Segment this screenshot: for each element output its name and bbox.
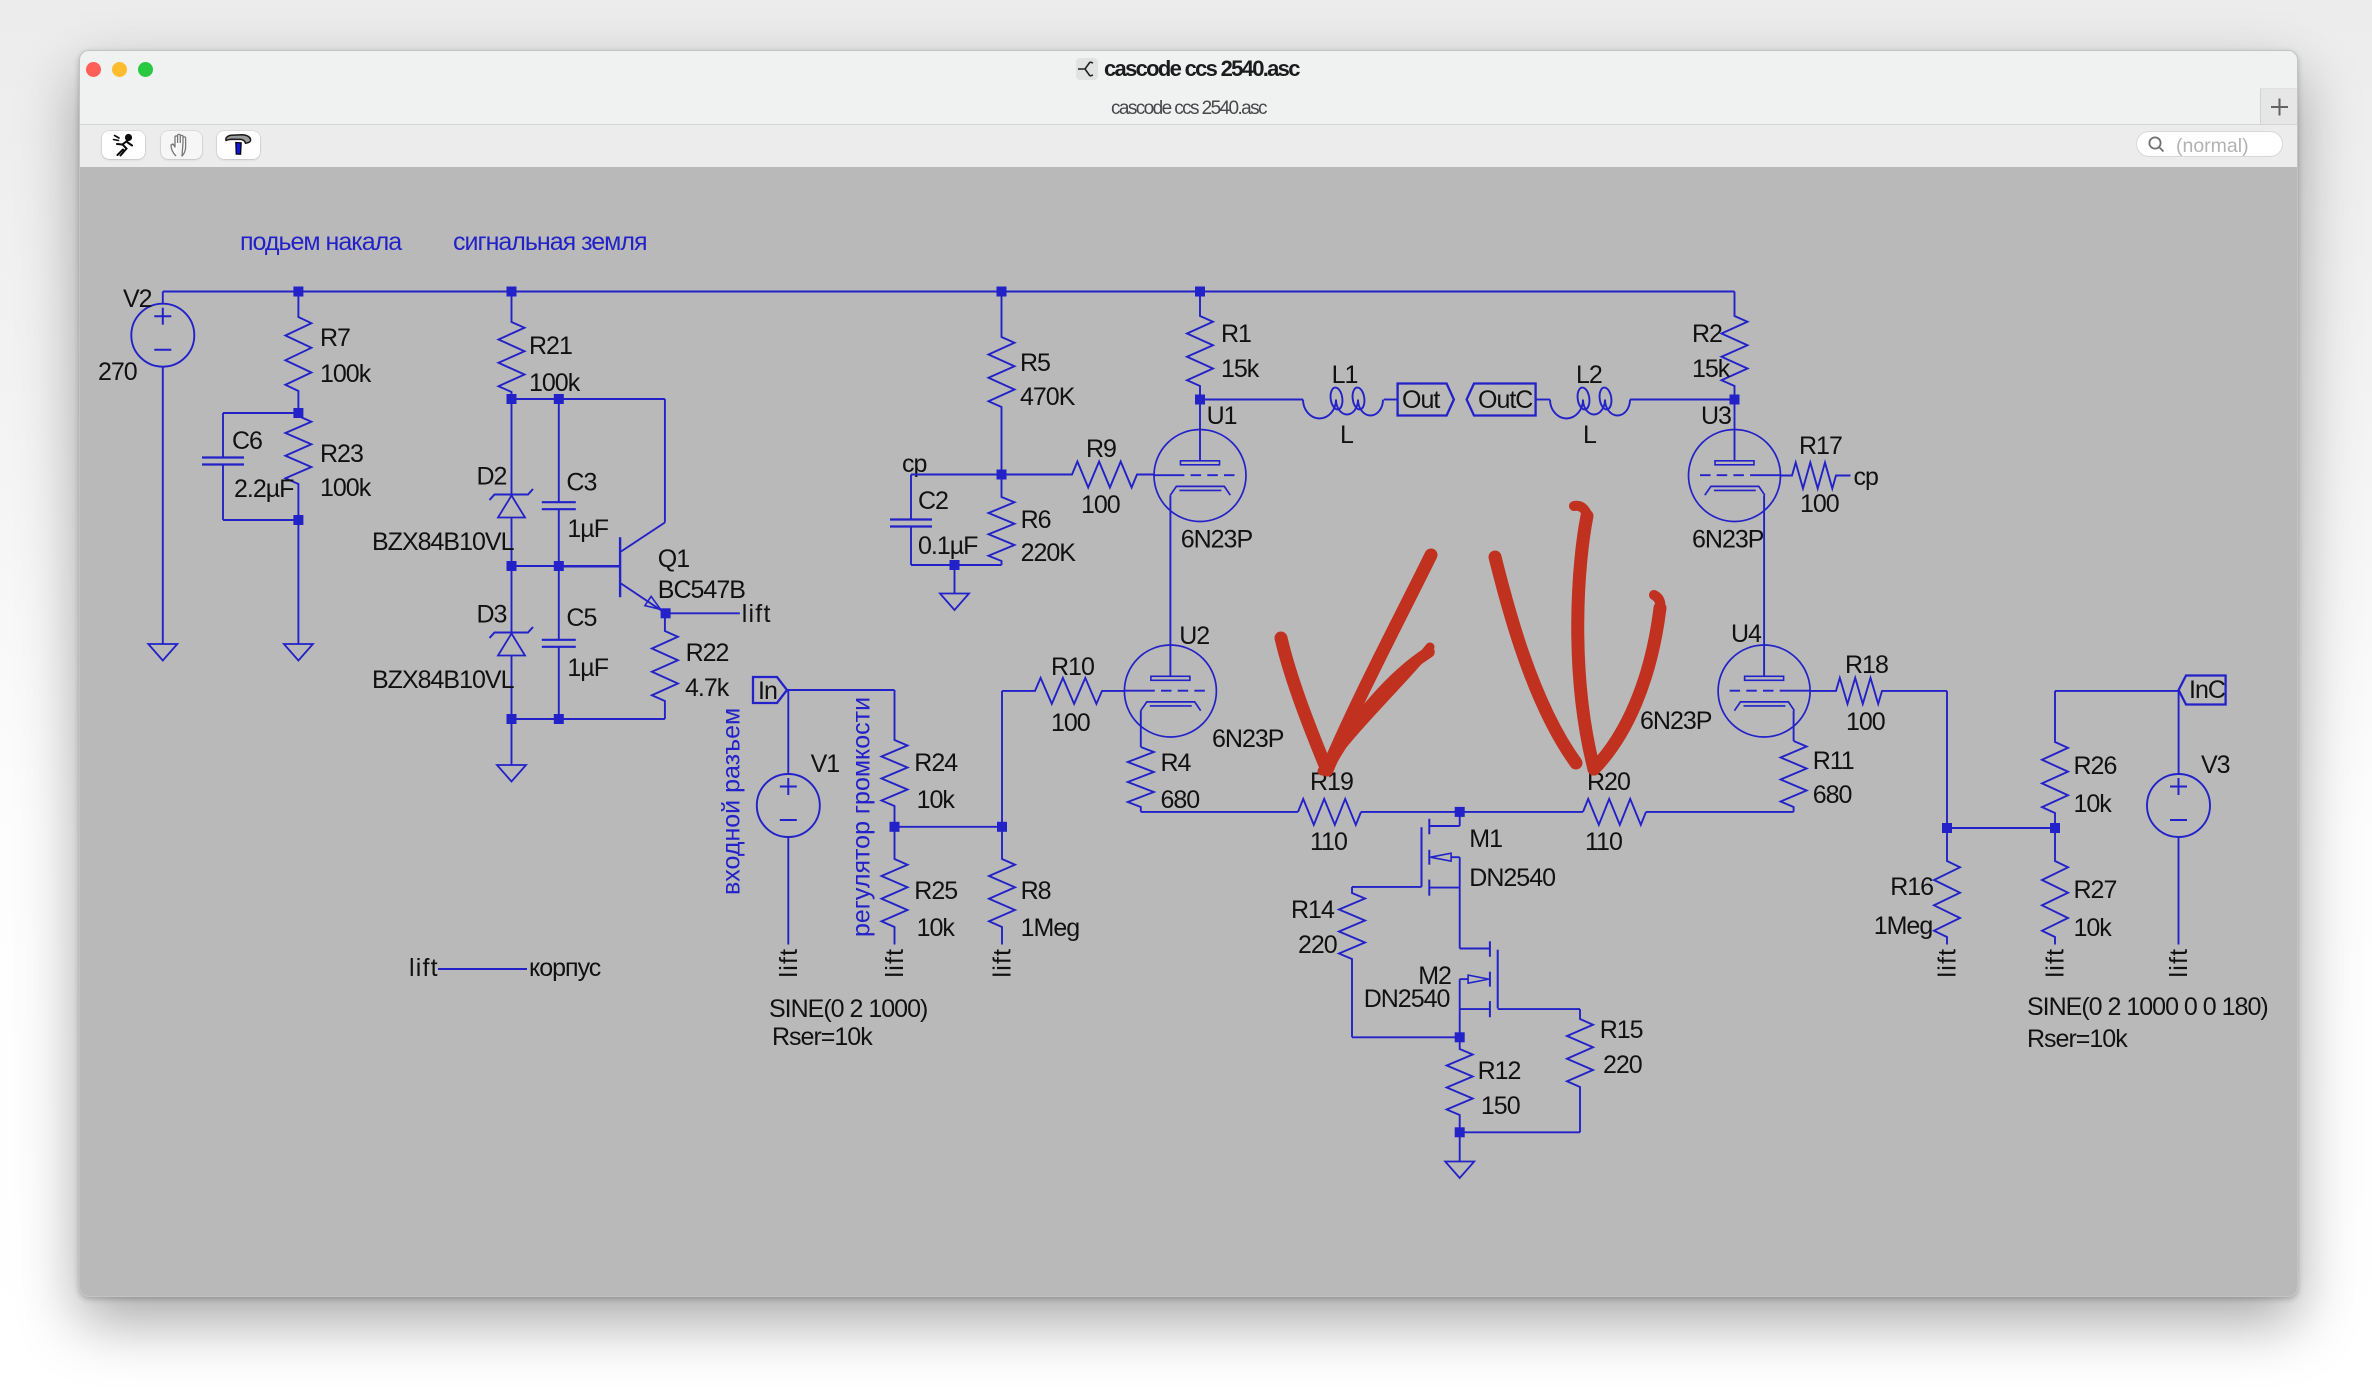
svg-text:InC: InC [2189, 676, 2226, 704]
value 4.7k [685, 674, 730, 702]
value 2.2uF [234, 475, 294, 503]
label Q1 [658, 545, 689, 573]
value 100k R23 [320, 474, 372, 502]
label U3 [1701, 402, 1731, 430]
node junction R16 top [1942, 823, 1952, 833]
label D2 [477, 463, 507, 491]
svg-text:R7: R7 [320, 324, 350, 352]
resistor R12 [1447, 1037, 1473, 1132]
value SINE V3 [2027, 993, 2268, 1021]
label R4 [1161, 749, 1192, 777]
run button [102, 131, 145, 159]
svg-text:V2: V2 [123, 285, 152, 313]
svg-text:lift: lift [409, 954, 439, 982]
svg-text:Rser=10k: Rser=10k [772, 1023, 873, 1051]
wire R1 to L1 [1200, 399, 1303, 401]
svg-text:BZX84B10VL: BZX84B10VL [372, 528, 515, 556]
value 220K [1021, 539, 1077, 567]
label R2 [1692, 320, 1722, 348]
schematic canvas [80, 167, 2299, 1298]
tab row [80, 88, 2297, 125]
value BZX84B10VL D3 [372, 666, 515, 694]
label R20 [1587, 768, 1630, 796]
svg-text:SINE(0 2 1000): SINE(0 2 1000) [769, 995, 927, 1023]
wire U3 cathode to U4 plate [1763, 495, 1765, 676]
label R14 [1291, 896, 1335, 924]
svg-text:R11: R11 [1813, 747, 1854, 775]
value BC547B [658, 576, 745, 604]
label V2 [123, 285, 152, 313]
node junction rail-M1 [1455, 807, 1465, 817]
label R8 [1021, 877, 1051, 905]
value 15k R2 [1692, 355, 1731, 383]
wire rail mid [1361, 811, 1583, 813]
tab label [1111, 98, 1266, 120]
svg-text:6N23P: 6N23P [1212, 725, 1284, 753]
resistor R16 [1934, 828, 1960, 945]
svg-text:R25: R25 [914, 877, 957, 905]
node junction R8 top [997, 822, 1007, 832]
zener diode D3 [490, 566, 534, 719]
svg-text:lift: lift [989, 948, 1017, 978]
svg-text:R9: R9 [1086, 435, 1116, 463]
value 6N23P U2 [1212, 725, 1284, 753]
svg-text:R4: R4 [1161, 749, 1192, 777]
svg-text:C2: C2 [918, 487, 948, 515]
resistor R17 [1781, 463, 1851, 489]
value 10k R25 [917, 914, 956, 942]
svg-text:сигнальная земля: сигнальная земля [453, 228, 647, 256]
node junction R21-D2 [507, 394, 517, 404]
svg-text:R5: R5 [1020, 349, 1050, 377]
label R26 [2074, 752, 2117, 780]
value Rser V3 [2027, 1025, 2128, 1053]
net label корпус [529, 954, 601, 982]
value 270 [98, 358, 137, 386]
label C5 [566, 604, 596, 632]
svg-text:D2: D2 [477, 463, 507, 491]
value 100 R9 [1081, 491, 1120, 519]
label R23 [320, 440, 363, 468]
node junction gnd C2R6 [950, 560, 960, 570]
svg-text:15k: 15k [1221, 355, 1260, 383]
mosfet M2 [1460, 941, 1498, 1017]
resistor R1 [1187, 292, 1213, 400]
net label lift R25 [881, 948, 909, 978]
value Rser V1 [772, 1023, 873, 1051]
zener diode D2 [490, 399, 534, 566]
value 100 R17 [1800, 490, 1839, 518]
ground under R23 [284, 520, 313, 661]
value 100k R21 [529, 369, 581, 397]
svg-text:lift: lift [881, 948, 909, 978]
label R10 [1051, 653, 1094, 681]
svg-text:U2: U2 [1179, 622, 1209, 650]
svg-text:270: 270 [98, 358, 137, 386]
wire R14 bottom row [1352, 1036, 1460, 1038]
resistor R19 [1298, 799, 1361, 825]
window title [1104, 56, 1299, 82]
value SINE V1 [769, 995, 927, 1023]
value DN2540 M2 [1364, 985, 1450, 1013]
node junction R27 top [2050, 823, 2060, 833]
svg-text:110: 110 [1585, 828, 1622, 856]
net label lift R16 [1934, 948, 1962, 978]
label R7 [320, 324, 350, 352]
triode U2 [1124, 645, 1216, 737]
svg-text:1µF: 1µF [567, 654, 608, 682]
svg-text:DN2540: DN2540 [1469, 864, 1555, 892]
capacitor C3 [542, 399, 576, 566]
resistor R18 [1810, 678, 1947, 704]
wire V3 bottom [2178, 837, 2180, 945]
value 100 R18 [1846, 708, 1885, 736]
svg-text:R6: R6 [1021, 506, 1051, 534]
node junction bus-R21 [507, 287, 517, 297]
resistor R8 [989, 827, 1015, 945]
net label cp left [902, 450, 927, 478]
wire U2 cathode to R4 [1140, 711, 1142, 747]
comment text регулятор громкости [848, 697, 876, 937]
value BZX84B10VL D2 [372, 528, 515, 556]
wire top supply bus [163, 291, 1735, 293]
svg-text:подьем накала: подьем накала [240, 228, 402, 256]
svg-text:In: In [758, 677, 777, 705]
svg-text:100k: 100k [320, 474, 372, 502]
svg-text:R8: R8 [1021, 877, 1051, 905]
svg-text:U3: U3 [1701, 402, 1731, 430]
svg-text:R10: R10 [1051, 653, 1094, 681]
document icon [1076, 58, 1098, 80]
voltage source V3 [2147, 774, 2210, 837]
value 6N23P U4 [1640, 707, 1712, 735]
svg-text:100: 100 [1800, 490, 1839, 518]
label R16 [1890, 873, 1933, 901]
value 1Meg R16 [1874, 912, 1933, 940]
svg-text:R12: R12 [1478, 1057, 1521, 1085]
svg-text:L1: L1 [1332, 361, 1358, 389]
wire R18 corner down [1946, 691, 1948, 828]
resistor R9 [1002, 462, 1155, 488]
wire InC down to V3 [2178, 691, 2180, 774]
resistor R23 [285, 413, 311, 520]
label V1 [811, 750, 840, 778]
value 10k R27 [2074, 914, 2113, 942]
wire L1 to Out [1384, 399, 1398, 401]
svg-text:Q1: Q1 [658, 545, 689, 573]
svg-text:корпус: корпус [529, 954, 601, 982]
search field [2136, 131, 2283, 157]
resistor R6 [989, 475, 1015, 566]
svg-text:входной разъем: входной разъем [718, 708, 746, 895]
svg-text:1Meg: 1Meg [1021, 914, 1080, 942]
label R27 [2074, 876, 2117, 904]
wire R24 node to R8 [895, 826, 1003, 828]
svg-text:V3: V3 [2201, 751, 2230, 779]
svg-text:lift: lift [742, 600, 772, 628]
net label cp right [1854, 463, 1879, 491]
capacitor C5 [542, 566, 576, 719]
svg-text:C6: C6 [232, 427, 262, 455]
svg-text:110: 110 [1310, 828, 1347, 856]
net label lift V3 [2165, 948, 2193, 978]
label R22 [686, 639, 729, 667]
net label lift V1 [775, 948, 803, 978]
capacitor C6 [202, 413, 244, 520]
node junction R24-R25 [890, 822, 900, 832]
label R19 [1310, 768, 1353, 796]
resistor R26 [2042, 691, 2068, 828]
wire row y398 [512, 398, 665, 400]
svg-text:1µF: 1µF [567, 515, 608, 543]
svg-text:SINE(0 2 1000 0 0 180): SINE(0 2 1000 0 0 180) [2027, 993, 2268, 1021]
value 100k R7 [320, 360, 372, 388]
svg-text:0.1µF: 0.1µF [918, 532, 978, 560]
net flag In [753, 677, 787, 705]
label M2 [1418, 962, 1451, 990]
value 150 R12 [1481, 1092, 1520, 1120]
svg-text:100: 100 [1081, 491, 1120, 519]
label R15 [1600, 1016, 1643, 1044]
voltage source V1 [757, 774, 820, 837]
resistor R7 [285, 292, 311, 414]
label R24 [914, 749, 958, 777]
wire V1 bottom [787, 837, 789, 945]
wire L2 to R2 [1630, 399, 1735, 401]
wire M1 gate to R14 [1352, 886, 1422, 888]
value 6N23P U3 [1692, 526, 1764, 554]
node junction R1-L1 [1195, 395, 1205, 405]
label R1 [1221, 320, 1251, 348]
resistor R22 [652, 613, 678, 719]
svg-text:C3: C3 [566, 469, 596, 497]
red arrow annotation at R20 [1495, 506, 1660, 769]
node junction R5-R6-R9 [997, 470, 1007, 480]
svg-text:470K: 470K [1020, 383, 1076, 411]
svg-text:680: 680 [1813, 781, 1852, 809]
svg-text:lift: lift [775, 948, 803, 978]
red arrow annotation at R19 [1281, 555, 1431, 771]
label L2 [1576, 361, 1602, 389]
svg-text:U1: U1 [1207, 402, 1237, 430]
value 680 R11 [1813, 781, 1852, 809]
svg-text:регулятор громкости: регулятор громкости [848, 697, 876, 937]
label R9 [1086, 435, 1116, 463]
traffic light minimize [112, 62, 127, 77]
value 15k R1 [1221, 355, 1260, 383]
ground under D3 [497, 719, 526, 782]
voltage source V2 [131, 292, 194, 645]
svg-text:V1: V1 [811, 750, 840, 778]
wire U4 cathode to R11 [1793, 711, 1795, 741]
svg-text:R1: R1 [1221, 320, 1251, 348]
node junction bus-R5 [997, 287, 1007, 297]
resistor R20 [1583, 799, 1646, 825]
value L of L1 [1340, 421, 1354, 449]
svg-text:U4: U4 [1731, 620, 1762, 648]
resistor R4 [1128, 747, 1154, 812]
wire OutC to L2 [1536, 399, 1550, 401]
comment text подьем накала [240, 228, 402, 256]
svg-text:R17: R17 [1799, 432, 1842, 460]
net label lift R8 [989, 948, 1017, 978]
svg-text:lift: lift [1934, 948, 1962, 978]
wire row y565 [512, 565, 621, 567]
svg-text:R14: R14 [1291, 896, 1335, 924]
svg-text:6N23P: 6N23P [1640, 707, 1712, 735]
wire R12-R15 bottom row [1460, 1131, 1580, 1133]
label R18 [1845, 651, 1888, 679]
svg-text:10k: 10k [2074, 914, 2113, 942]
svg-text:lift: lift [2042, 948, 2070, 978]
svg-text:6N23P: 6N23P [1692, 526, 1764, 554]
svg-text:1Meg: 1Meg [1874, 912, 1933, 940]
svg-text:6N23P: 6N23P [1181, 526, 1253, 554]
resistor R5 [989, 292, 1015, 475]
resistor R10 [1002, 678, 1124, 704]
traffic light close [86, 62, 101, 77]
svg-text:10k: 10k [2074, 790, 2113, 818]
transistor Q1 [559, 399, 666, 613]
label R25 [914, 877, 957, 905]
resistor R27 [2042, 828, 2068, 945]
traffic light zoom [138, 62, 153, 77]
wire C6 bottom [223, 519, 298, 521]
wire R8 up to R10 [1001, 691, 1003, 827]
svg-text:100: 100 [1846, 708, 1885, 736]
wire lift-korpus [438, 968, 527, 970]
node junction bottom D3 [507, 714, 517, 724]
value 10k R24 [917, 786, 956, 814]
svg-text:R15: R15 [1600, 1016, 1643, 1044]
node junction M2-R12 [1455, 1032, 1465, 1042]
svg-text:220K: 220K [1021, 539, 1077, 567]
svg-text:OutC: OutC [1478, 386, 1533, 414]
value L of L2 [1583, 421, 1597, 449]
svg-text:cp: cp [1854, 463, 1879, 491]
node junction R2-L2 [1730, 395, 1740, 405]
comment text сигнальная земля [453, 228, 647, 256]
resistor R21 [499, 292, 525, 400]
resistor R2 [1722, 292, 1748, 400]
label R17 [1799, 432, 1842, 460]
wire C6 top [223, 412, 298, 414]
value 1uF C3 [567, 515, 608, 543]
ground under R12 [1445, 1132, 1474, 1178]
svg-text:M1: M1 [1469, 825, 1502, 853]
resistor R15 [1567, 1009, 1593, 1132]
inductor L2 [1550, 387, 1630, 419]
svg-text:R21: R21 [529, 332, 572, 360]
svg-text:L: L [1583, 421, 1597, 449]
net flag OutC [1467, 384, 1536, 416]
net label lift Q1 [742, 600, 772, 628]
label V3 [2201, 751, 2230, 779]
svg-text:C5: C5 [566, 604, 596, 632]
svg-text:100k: 100k [320, 360, 372, 388]
wire R16-R27 row [1947, 827, 2055, 829]
net label lift corpus [409, 954, 439, 982]
label U1 [1207, 402, 1237, 430]
netlist button (hammer) [217, 131, 260, 159]
value 220 R14 [1298, 931, 1337, 959]
wire In down to V1 [787, 690, 789, 774]
wire In to R24 [787, 689, 895, 691]
svg-text:100: 100 [1051, 709, 1090, 737]
inductor L1 [1303, 387, 1383, 419]
svg-text:150: 150 [1481, 1092, 1520, 1120]
triode U1 [1154, 400, 1246, 522]
svg-text:10k: 10k [917, 914, 956, 942]
svg-text:Out: Out [1402, 386, 1440, 414]
value 110 R20 [1585, 828, 1622, 856]
triode U3 [1689, 400, 1781, 522]
node junction R21-C3 [554, 394, 564, 404]
value 220 R15 [1603, 1051, 1642, 1079]
node junction bus-R7 [293, 287, 303, 297]
resistor R11 [1781, 741, 1807, 812]
value 100 R10 [1051, 709, 1090, 737]
label U4 [1731, 620, 1762, 648]
value 680 R4 [1161, 786, 1200, 814]
net label lift R27 [2042, 948, 2070, 978]
ground under V2 [148, 644, 177, 661]
wire rail right [1646, 811, 1794, 813]
net flag Out [1398, 384, 1454, 416]
svg-text:4.7k: 4.7k [685, 674, 730, 702]
svg-text:BC547B: BC547B [658, 576, 745, 604]
value 110 R19 [1310, 828, 1347, 856]
wire R26 to InC [2055, 690, 2179, 692]
label R11 [1813, 747, 1854, 775]
node junction C3-C5 [554, 561, 564, 571]
svg-text:BZX84B10VL: BZX84B10VL [372, 666, 515, 694]
svg-text:lift: lift [2165, 948, 2193, 978]
wire C2 bottom row [911, 564, 1002, 566]
value 470K [1020, 383, 1076, 411]
label D3 [477, 601, 507, 629]
toolbar [80, 125, 2297, 167]
wire rail left [1141, 811, 1298, 813]
node junction Q1 emitter [661, 608, 671, 618]
wire M2 gate to R15 [1498, 1008, 1580, 1010]
label L1 [1332, 361, 1358, 389]
svg-text:R18: R18 [1845, 651, 1888, 679]
label C3 [566, 469, 596, 497]
value 6N23P U1 [1181, 526, 1253, 554]
node junction R23-bottom [293, 515, 303, 525]
triode U4 [1718, 645, 1810, 737]
resistor R24 [882, 690, 908, 827]
svg-text:2.2µF: 2.2µF [234, 475, 294, 503]
svg-text:R26: R26 [2074, 752, 2117, 780]
node junction bottom C5 [554, 714, 564, 724]
value 10k R26 [2074, 790, 2113, 818]
svg-text:220: 220 [1298, 931, 1337, 959]
node junction R12 bottom [1455, 1127, 1465, 1137]
svg-text:680: 680 [1161, 786, 1200, 814]
mosfet M1 [1422, 812, 1460, 896]
svg-text:10k: 10k [917, 786, 956, 814]
svg-text:R16: R16 [1890, 873, 1933, 901]
value 1uF C5 [567, 654, 608, 682]
node junction bus-R1 [1195, 287, 1205, 297]
value 1Meg R8 [1021, 914, 1080, 942]
label U2 [1179, 622, 1209, 650]
svg-text:R22: R22 [686, 639, 729, 667]
comment text входной разъем [718, 708, 746, 895]
label R12 [1478, 1057, 1521, 1085]
